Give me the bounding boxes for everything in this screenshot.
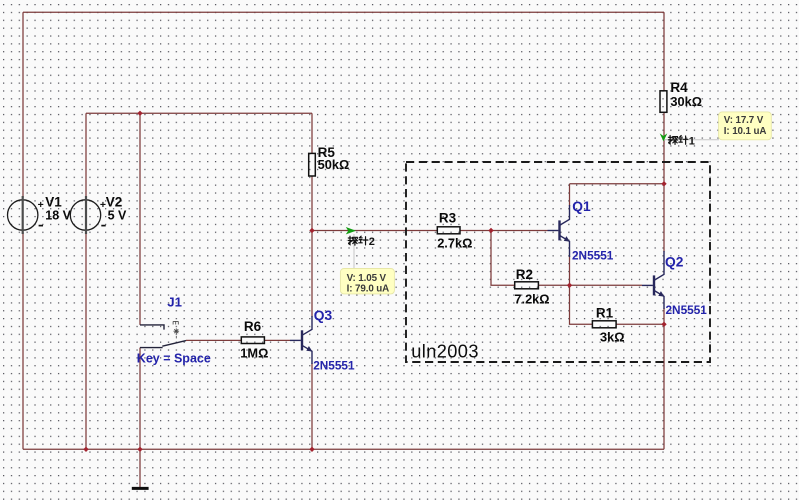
probe 1 label 探针1: [668, 135, 688, 144]
wire right vertical R4 to Q2 collector: [663, 112, 665, 252]
wire left V1 branch upper: [22, 12, 24, 198]
svg-text:1: 1: [689, 136, 695, 148]
svg-text:2N5551: 2N5551: [572, 248, 614, 262]
svg-text:50kΩ: 50kΩ: [318, 157, 350, 172]
wire right vertical upper (top to R4): [663, 12, 665, 91]
switch J1: [140, 325, 186, 348]
svg-text:V1: V1: [45, 195, 62, 210]
wire V2 branch upper: [85, 113, 87, 198]
resistor R2: [515, 282, 539, 289]
svg-text:Q1: Q1: [572, 199, 591, 214]
voltage source V2: [70, 195, 127, 234]
node R2 right / Q1 emitter / R1 tap: [567, 283, 572, 288]
transistor Q3 emitter arrow: [306, 346, 312, 352]
node J1 top feed: [137, 111, 142, 116]
probe 2 arrow: [346, 227, 356, 234]
wire J1 lower to rail: [139, 348, 141, 450]
svg-text:R2: R2: [516, 267, 533, 282]
wire R6 to Q3 base: [264, 339, 290, 341]
svg-text:+: +: [38, 199, 44, 211]
resistor R3: [437, 227, 460, 234]
resistor R1: [592, 321, 616, 328]
wire probe2 row node to R3: [312, 230, 437, 232]
resistor R5: [309, 153, 316, 176]
wire Q3 collector riser to node: [311, 231, 313, 318]
probe 1 callout box: [719, 112, 772, 140]
node Q3 emitter at ground rail: [309, 447, 314, 452]
node Q1 collector link / right vertical: [661, 181, 666, 186]
voltage source V1: [8, 195, 72, 234]
svg-text:V: 17.7 V: V: 17.7 V: [724, 115, 764, 126]
wire top rail V1+: [23, 11, 664, 13]
probe 1 leader line: [662, 139, 719, 141]
wire R5 bottom lead to node: [311, 176, 313, 231]
wire right vertical Q2 emitter to rail: [663, 308, 665, 449]
svg-text:Q3: Q3: [314, 308, 333, 323]
resistor R6: [241, 337, 264, 344]
wire R3 to Q1 base: [460, 230, 548, 232]
svg-text:2N5551: 2N5551: [666, 303, 708, 317]
svg-text:2: 2: [369, 236, 375, 248]
svg-text:R4: R4: [670, 80, 688, 95]
svg-text:I: 79.0 uA: I: 79.0 uA: [347, 284, 390, 295]
resistor R4: [660, 91, 667, 113]
node R5 bottom / probe2: [309, 228, 314, 233]
svg-text:30kΩ: 30kΩ: [670, 94, 702, 109]
svg-text:R6: R6: [244, 319, 262, 334]
svg-text:2.7kΩ: 2.7kΩ: [437, 235, 472, 250]
wire V2 branch lower: [85, 232, 87, 449]
wire R1 to right vertical: [616, 323, 664, 325]
transistor Q3: [290, 316, 312, 364]
ground: [132, 487, 149, 490]
svg-text:R1: R1: [596, 306, 614, 321]
probe 1 arrow: [660, 133, 668, 141]
svg-text:Q2: Q2: [665, 255, 684, 270]
node R1 right / Q2 emitter: [661, 322, 666, 327]
wire Q3 emitter to rail: [311, 363, 313, 449]
probe 2 label 探针2: [348, 236, 368, 245]
wire R5 top lead: [311, 113, 313, 153]
svg-text:2N5551: 2N5551: [313, 358, 355, 372]
transistor Q2 emitter arrow: [658, 291, 664, 297]
wire bottom ground rail: [23, 448, 664, 450]
wire R2 feed down from R3 node: [491, 231, 515, 286]
uln2003 dashed box: [406, 162, 710, 362]
svg-text:18 V: 18 V: [45, 209, 71, 223]
transistor Q1: [548, 205, 570, 257]
svg-text:V2: V2: [106, 195, 123, 210]
switch J1 key marks: [173, 321, 179, 338]
wire Q1 collector riser: [569, 184, 571, 206]
node J1 at ground rail: [137, 447, 142, 452]
svg-text:7.2kΩ: 7.2kΩ: [514, 292, 549, 307]
node V2 at ground rail: [83, 447, 88, 452]
wire R2 to Q2 base: [538, 284, 642, 286]
svg-text:V: 1.05 V: V: 1.05 V: [347, 273, 387, 284]
wire Q1 emitter drop: [569, 256, 571, 285]
svg-text:J1: J1: [167, 294, 182, 309]
svg-text:Key = Space: Key = Space: [137, 351, 211, 365]
node R3 right / R2 tap: [488, 228, 493, 233]
transistor Q2: [642, 251, 664, 309]
transistor Q1 emitter arrow: [564, 236, 570, 242]
wire R1 feed down from R2 node: [570, 285, 593, 324]
probe 2 callout box: [340, 269, 394, 294]
svg-text:3kΩ: 3kΩ: [600, 330, 625, 345]
wire left V1 branch lower: [22, 232, 24, 449]
wire J1 to R6: [186, 339, 241, 341]
wire V2 top horizontal to R5: [86, 112, 312, 114]
svg-text:I: 10.1 uA: I: 10.1 uA: [724, 126, 767, 137]
svg-text:uln2003: uln2003: [411, 341, 479, 361]
wire ground stem: [139, 449, 141, 487]
probe 2 leader line: [347, 234, 378, 269]
wire J1 upper feed: [139, 113, 141, 325]
svg-text:1MΩ: 1MΩ: [240, 345, 268, 360]
svg-text:5 V: 5 V: [108, 209, 127, 223]
svg-text:R3: R3: [439, 210, 457, 225]
wire Q1 collector top link: [570, 183, 665, 185]
